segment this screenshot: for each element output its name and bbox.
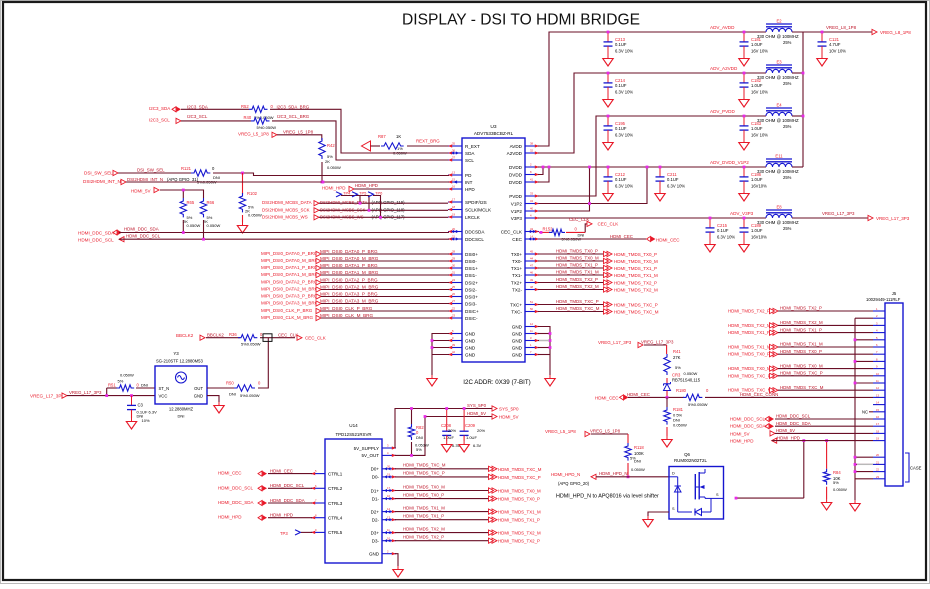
ground U14 [393,566,403,577]
svg-text:R52: R52 [241,104,249,109]
svg-text:5%: 5% [675,365,681,370]
svg-text:DSI2HDMI_MCBS_WS: DSI2HDMI_MCBS_WS [262,214,308,219]
svg-text:12: 12 [530,322,533,326]
svg-text:HDMI_TMDS_TX0_M: HDMI_TMDS_TX0_M [403,484,445,489]
note level shifter [556,494,659,500]
U3 pin V3P3 [511,214,539,221]
wire [319,209,448,211]
ground shield bus [850,500,860,511]
U3 pin DSI3- [448,299,477,306]
svg-text:HDMI_TMDS_TXC_P: HDMI_TMDS_TXC_P [614,303,658,308]
test point TP5 [352,191,369,211]
svg-text:R66: R66 [207,200,215,205]
svg-text:D0+: D0+ [371,467,380,472]
wire [268,502,312,504]
capacitor C121 [817,32,846,66]
svg-text:R40: R40 [244,115,252,120]
U3 pin DSIC- [448,314,478,321]
U14 pin D3- direction glyph [384,539,391,542]
U3 pin INT [448,178,473,185]
svg-text:HDMI_TMDS_TX1_P: HDMI_TMDS_TX1_P [614,266,657,271]
svg-text:VREG_L17_3P3: VREG_L17_3P3 [598,340,632,345]
svg-text:25: 25 [452,285,455,289]
junction [431,339,434,349]
U3 pin SCL [448,156,474,163]
svg-text:DSI1-: DSI1- [465,273,477,278]
U3 pin V1P2 [511,199,539,206]
svg-text:39: 39 [452,343,455,347]
svg-text:GND: GND [465,338,476,343]
svg-text:17: 17 [452,198,455,202]
svg-text:HDMI_TMDS_TX2_P: HDMI_TMDS_TX2_P [556,277,598,282]
svg-text:CEC_CLK: CEC_CLK [569,217,589,222]
net MIPI_DSI0_CLK_P_BRG [261,306,373,313]
net HDMI_TMDS_TXC_P [556,299,658,308]
svg-text:42: 42 [452,350,455,354]
U14 pin GND [369,549,396,556]
svg-text:Y3: Y3 [173,351,179,356]
svg-text:16: 16 [876,415,879,419]
U14 pin D0+ [371,464,396,471]
svg-text:E11: E11 [775,153,783,158]
svg-text:HDMI_TMDS_TXC_M: HDMI_TMDS_TXC_M [614,310,659,315]
U3 pin TX2+ [511,278,539,285]
svg-text:MIPI_DSI0_DATA1_P_BRG: MIPI_DSI0_DATA1_P_BRG [261,265,318,270]
svg-text:HDMI_TMDS_TX1_M: HDMI_TMDS_TX1_M [498,510,541,515]
U14 pin D2+ [371,507,396,514]
wire net ADV_A2VDD [538,73,766,153]
svg-text:VREG_L5_1P8: VREG_L5_1P8 [238,132,269,137]
ferrite bead E4 [757,102,799,129]
wire [775,432,873,434]
svg-text:VREG_L8_1P8: VREG_L8_1P8 [880,30,911,35]
net HDMI_TMDS_TX0_M [728,363,823,371]
svg-text:DDCSCL: DDCSCL [465,237,484,242]
svg-text:HDMI_5V: HDMI_5V [776,428,795,433]
svg-text:330 OHM @ 100MHZ: 330 OHM @ 100MHZ [757,220,799,225]
svg-text:GND: GND [194,393,203,398]
svg-text:HDMI_CEC: HDMI_CEC [656,237,680,242]
svg-text:REXT_BRG: REXT_BRG [416,139,440,144]
U14 pin D0+ direction glyph [384,467,391,470]
svg-text:GND: GND [512,345,523,350]
svg-text:DDCSDA: DDCSDA [465,229,485,234]
svg-text:A2VDD: A2VDD [507,151,523,156]
net HDMI_HPD [322,183,378,191]
U14 pin 5V_SUPPLY [354,444,396,451]
svg-text:0.1UF: 0.1UF [717,228,729,233]
junction [743,115,746,118]
junction [202,238,205,241]
U14 pin D1+ direction glyph [384,489,391,492]
resistor R36 [229,332,263,347]
svg-text:16V10%: 16V10% [751,184,767,189]
resistor R42 [319,138,341,170]
svg-text:HDMI_DDC_SCL: HDMI_DDC_SCL [730,417,766,422]
capacitor C215 [705,218,736,252]
J5 pin 11 [873,379,885,383]
ground R102 [237,215,247,233]
capacitor C214 [603,73,634,107]
wire [321,289,449,291]
junction [368,209,371,212]
wire ghost [539,340,549,342]
J5 pin 17 [873,422,885,426]
svg-text:330 OHM @ 100MHZ: 330 OHM @ 100MHZ [757,118,799,123]
wire [321,162,323,182]
net VREG_L17_3P3 [30,390,102,399]
U3 pin DSI1+ [448,264,478,271]
svg-text:32: 32 [530,149,533,153]
U3 pin GND [512,350,539,357]
net HDMI_TMDS_TXC_P [728,371,823,379]
svg-text:HDMI_TMDS_TX2_M: HDMI_TMDS_TX2_M [498,531,541,536]
svg-text:0.1UF: 0.1UF [667,177,679,182]
svg-text:18: 18 [452,205,455,209]
svg-text:GND: GND [512,324,523,329]
svg-text:MIPI_DSI0_DATA0_P_BRG: MIPI_DSI0_DATA0_P_BRG [261,251,318,256]
svg-text:0.050W: 0.050W [684,371,698,376]
svg-text:R181: R181 [673,407,684,412]
svg-text:TX1-: TX1- [512,273,522,278]
wire I2C3_SCL [181,120,251,122]
wire net HDMI_TMDS_TX2_P [395,540,492,542]
wire Q6 S to HDMI_HPD [736,441,804,499]
wire [319,216,448,218]
junction [322,181,325,184]
svg-text:45: 45 [530,250,533,254]
svg-text:GND: GND [465,345,476,350]
net HDMI_TMDS_TXC_M [728,385,824,393]
node ADV_V3P3 label [730,211,754,216]
svg-text:HDMI_TMDS_TX2_M: HDMI_TMDS_TX2_M [403,526,445,531]
wire [321,303,449,305]
wire net ADV_V3P3 [538,217,766,219]
svg-text:25%: 25% [783,226,792,231]
svg-text:HDMI_DDC_SDA: HDMI_DDC_SDA [218,500,254,505]
svg-text:HDMI_HPD_N: HDMI_HPD_N [551,472,580,477]
svg-text:AVDD: AVDD [510,144,523,149]
svg-text:ADV_AVDD: ADV_AVDD [710,25,735,30]
wire [213,173,449,176]
svg-text:HDMI_CEC: HDMI_CEC [595,396,619,401]
transistor Q6 RUM002N02T2L [669,452,724,519]
svg-text:HDMI_DDC_SCL: HDMI_DDC_SCL [126,234,161,239]
wire net HDMI_TMDS_TX1_P [395,519,492,521]
U14 pin CTRL3 [311,499,343,506]
svg-text:R118: R118 [634,445,644,450]
svg-text:VREG_L17_3P3: VREG_L17_3P3 [641,340,674,345]
svg-text:5%0.050W: 5%0.050W [688,402,708,407]
U14 pin D0- [372,473,396,480]
junction [659,166,662,169]
wire net HDMI_TMDS_TX2_P [538,282,607,284]
svg-text:MIPI_DSI0_DATA2_P_BRG: MIPI_DSI0_DATA2_P_BRG [261,279,318,284]
svg-text:HDMI_HPD: HDMI_HPD [730,439,754,444]
wire [644,345,667,354]
svg-text:(APQ GPIO_31): (APQ GPIO_31) [167,177,199,182]
ground U3 right [545,375,555,386]
svg-text:CTRL1: CTRL1 [328,471,343,476]
wire [183,220,203,239]
svg-text:OUT: OUT [194,386,203,391]
net VREG_L5_1P8 [545,429,621,437]
svg-text:D0-: D0- [372,475,380,480]
svg-text:0.050W: 0.050W [833,487,847,492]
svg-text:VREG_L5_1P8: VREG_L5_1P8 [283,130,314,135]
test point TP4 [336,191,360,204]
U14 pin CTRL1 [311,469,343,476]
resistor R40 [244,115,277,130]
ground R181 [662,427,672,447]
svg-text:DSI2HDMI_INT_N: DSI2HDMI_INT_N [83,179,121,184]
svg-text:DSI2-: DSI2- [465,287,477,292]
wire [321,296,449,298]
capacitor C209 [460,409,486,449]
svg-text:330 OHM @ 100MHZ: 330 OHM @ 100MHZ [757,169,799,174]
wire net HDMI_TMDS_TX2_M [395,532,492,534]
svg-text:23: 23 [876,475,879,479]
wire [778,346,873,348]
svg-text:RUM002N02T2L: RUM002N02T2L [674,458,708,463]
svg-text:0.1UF: 0.1UF [615,83,627,88]
svg-text:GND: GND [512,352,523,357]
svg-text:RB751S40,115: RB751S40,115 [672,378,701,383]
U3 pin PVDD [509,192,539,199]
svg-text:19: 19 [452,213,455,217]
wire [268,473,312,475]
svg-text:R_EXT: R_EXT [465,144,480,149]
wire [319,202,448,204]
net HDMI_TMDS_TX0_P [556,249,657,258]
net I2C3_SDA [149,105,208,112]
junction [463,407,466,410]
wire [778,324,873,326]
ground C208 [442,435,452,452]
net HDMI_DDC_SCL [78,234,161,243]
svg-text:5%0.050W: 5%0.050W [254,115,274,120]
svg-text:SPDIF/I2S: SPDIF/I2S [465,200,487,205]
svg-text:47: 47 [530,264,533,268]
capacitor C181 [739,32,768,66]
capacitor C211 [655,167,686,201]
U14 pin D1- [372,494,396,501]
J5 pin 6 [873,343,885,347]
junction [424,407,448,418]
svg-text:25%: 25% [783,40,792,45]
wire net ADV_AVDD [538,32,766,146]
resistor R87 [362,134,449,156]
svg-text:0.050W: 0.050W [673,423,687,428]
svg-text:25%: 25% [783,124,792,129]
svg-text:R87: R87 [378,134,386,139]
svg-text:6.3V 10%: 6.3V 10% [717,235,735,240]
svg-text:HDMI_TMDS_TX1_M: HDMI_TMDS_TX1_M [556,270,599,275]
J5 CASE pin 22 [873,468,885,472]
svg-text:330 OHM @ 100MHZ: 330 OHM @ 100MHZ [757,75,799,80]
net HDMI_5V [467,411,519,420]
svg-text:E8: E8 [776,204,782,209]
CASE bracket [905,453,922,482]
svg-text:30: 30 [452,264,455,268]
J5 pin 18 [873,429,885,433]
U3 pin GND [448,329,476,336]
svg-text:CTRL4: CTRL4 [328,516,343,521]
net HDMI_CEC [610,234,680,243]
net NC [862,409,873,414]
svg-text:C209: C209 [465,423,476,428]
U3 pin R_EXT [448,142,480,149]
junction [607,72,610,75]
U3 pin TX1- [512,271,539,278]
svg-text:6.3V: 6.3V [473,443,482,448]
svg-text:HDMI_TMDS_TX0_M: HDMI_TMDS_TX0_M [780,363,823,368]
title DISPLAY - DSI TO HDMI BRIDGE [402,12,640,29]
svg-text:10: 10 [876,372,879,376]
U3 pin DVDD [509,178,539,185]
junction [743,31,746,34]
wire net HDMI_TMDS_TXC_M [538,311,607,313]
svg-text:HDMI_TMDS_TX2_P: HDMI_TMDS_TX2_P [780,306,822,311]
U3 pin DSI0+ [448,250,478,257]
net HDMI_TMDS_TX1_P [556,263,657,272]
U3 pin DSI3+ [448,292,478,299]
junction [802,72,805,118]
svg-text:41: 41 [530,178,533,182]
resistor R84 [823,441,847,492]
resistor R50 [226,381,261,399]
svg-text:HDMI_5V: HDMI_5V [499,415,519,420]
svg-text:1.0UF: 1.0UF [751,83,763,88]
svg-text:ADV_A2VDD: ADV_A2VDD [710,66,738,71]
wire net ADV_DVDD_V1P2 [538,166,766,168]
J5 pin 3 [873,321,885,325]
svg-text:TX2-: TX2- [512,287,522,292]
svg-text:29: 29 [452,257,455,261]
svg-text:23: 23 [452,314,455,318]
svg-text:TXC-: TXC- [511,309,522,314]
U3 left GND bus wire [432,334,449,376]
svg-text:44: 44 [530,257,533,261]
svg-text:HDMI_TMDS_TX0_P: HDMI_TMDS_TX0_P [614,252,657,257]
svg-text:HDMI_TMDS_TX0_P: HDMI_TMDS_TX0_P [728,352,770,357]
net HDMI_TMDS_TXC_M [403,463,542,472]
U3 pin GND [512,329,539,336]
U14 pin D3+ [371,528,396,535]
svg-text:50: 50 [530,307,533,311]
svg-text:DVDD: DVDD [509,172,523,177]
svg-text:Q6: Q6 [684,452,690,457]
net HDMI_TMDS_TX2_M [556,284,658,293]
svg-text:25%: 25% [783,175,792,180]
svg-text:22: 22 [876,468,879,472]
net HDMI_5V [131,187,159,193]
svg-text:17: 17 [876,422,879,426]
svg-text:HDMI_TMDS_TXC_P: HDMI_TMDS_TXC_P [403,471,445,476]
svg-text:HDMI_TMDS_TX2_M: HDMI_TMDS_TX2_M [556,284,599,289]
svg-text:R42: R42 [327,143,335,148]
svg-text:SDA: SDA [465,151,475,156]
svg-text:34: 34 [530,199,533,203]
wire [321,310,449,312]
svg-text:6.3V 10%: 6.3V 10% [615,133,633,138]
junction [607,31,610,34]
wire VREG_L8_1P8 bus [792,32,803,167]
net MIPI_DSI0_DATA2_M_BRG [261,285,379,292]
net HDMI_HPD_N [551,471,628,486]
wire [206,337,240,339]
svg-text:HDMI_HPD: HDMI_HPD [270,513,293,518]
wire net HDMI_TMDS_TX2_M [538,289,607,291]
svg-text:SCLK/MCLK: SCLK/MCLK [465,207,492,212]
wire Q6 source to ground [648,512,669,516]
svg-text:TP4: TP4 [343,191,351,196]
wire SYS_5P0 [395,409,492,449]
IC U3 ADV7533BCBZ-RL body [462,124,531,386]
svg-text:HDMI_CEC: HDMI_CEC [218,471,242,476]
junction [542,166,551,169]
net HDMI_TMDS_TX1_M [728,342,823,350]
junction [105,394,133,397]
svg-text:BBCLK2: BBCLK2 [176,333,194,338]
svg-text:330 OHM @ 100MHZ: 330 OHM @ 100MHZ [757,34,799,39]
svg-text:V1P2: V1P2 [511,201,523,206]
svg-text:1.0UF: 1.0UF [751,126,763,131]
svg-text:24: 24 [452,278,455,282]
svg-text:I2C3_SDA: I2C3_SDA [149,106,170,111]
svg-text:CEC_CLK: CEC_CLK [278,333,298,338]
svg-text:31: 31 [452,271,455,275]
svg-text:HDMI_TMDS_TXC_M: HDMI_TMDS_TXC_M [728,388,772,393]
svg-text:PVDD: PVDD [509,194,522,199]
svg-text:20: 20 [876,453,879,457]
svg-text:5%0.050W: 5%0.050W [241,342,261,347]
junction [607,115,610,118]
wire [775,418,873,420]
U3 pin GND [448,343,476,350]
svg-text:R65: R65 [187,200,195,205]
wire net HDMI_TMDS_TX1_M [395,511,492,513]
wire net HDMI_TMDS_TX0_P [538,253,607,255]
svg-text:HDMI_TMDS_TX1_P: HDMI_TMDS_TX1_P [556,263,598,268]
svg-text:(APQ GPIO_20): (APQ GPIO_20) [558,481,590,486]
svg-text:D1-: D1- [372,496,380,501]
wire [775,425,873,427]
U14 pin CTRL5 [311,528,343,535]
junction [743,72,746,75]
J5 CASE pin 23 [873,475,885,479]
wire [596,476,669,478]
svg-text:CASE: CASE [910,466,922,471]
svg-text:27K: 27K [673,355,681,360]
svg-text:R102: R102 [247,191,258,196]
svg-text:HPD: HPD [465,187,475,192]
net HDMI_HPD [218,513,293,521]
wire [792,31,872,33]
junction [666,396,669,399]
net VREG_L8_1P8 [826,25,911,35]
U3 pin A2VDD [507,149,539,156]
U14 GND wire [395,554,398,566]
wire HDMI_5V [395,417,492,456]
J5 CASE pin 21 [873,460,885,464]
capacitor C213 [603,32,634,66]
net VREG_L17_3P3 [822,211,910,221]
junction [182,231,185,234]
J5 pin 13 [873,393,885,397]
svg-text:5V_OUT: 5V_OUT [361,453,379,458]
svg-text:CEC: CEC [512,237,522,242]
